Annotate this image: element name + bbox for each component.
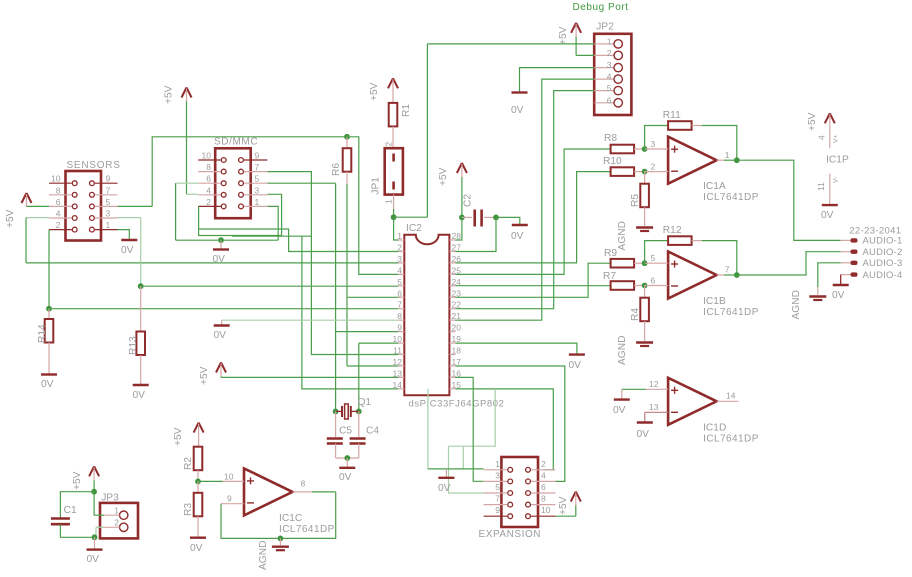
svg-text:2: 2 xyxy=(607,48,612,58)
svg-text:5: 5 xyxy=(607,83,612,93)
svg-text:4: 4 xyxy=(817,135,827,140)
svg-text:0V: 0V xyxy=(569,360,582,371)
svg-text:AGND: AGND xyxy=(791,290,802,319)
svg-text:8: 8 xyxy=(301,479,306,489)
svg-text:5: 5 xyxy=(495,482,500,492)
svg-text:IC1C: IC1C xyxy=(279,513,302,524)
svg-text:3: 3 xyxy=(495,470,500,480)
svg-text:JP2: JP2 xyxy=(596,22,614,33)
svg-text:9: 9 xyxy=(495,505,500,515)
svg-text:9: 9 xyxy=(106,174,111,184)
svg-text:R13: R13 xyxy=(128,336,139,355)
svg-text:7: 7 xyxy=(106,185,111,195)
svg-text:18: 18 xyxy=(452,346,462,356)
svg-text:6: 6 xyxy=(651,276,656,286)
svg-text:V+: V+ xyxy=(833,135,840,143)
svg-text:0V: 0V xyxy=(87,554,100,565)
svg-text:AGND: AGND xyxy=(617,336,628,365)
svg-text:0V: 0V xyxy=(438,483,451,494)
svg-text:1: 1 xyxy=(725,150,730,160)
svg-text:+5V: +5V xyxy=(173,427,184,446)
svg-text:14: 14 xyxy=(726,391,736,401)
svg-text:+5V: +5V xyxy=(72,471,83,490)
svg-text:AUDIO-2: AUDIO-2 xyxy=(863,247,903,258)
svg-text:6: 6 xyxy=(607,95,612,105)
svg-text:+5V: +5V xyxy=(199,366,210,385)
svg-text:2: 2 xyxy=(384,142,394,147)
svg-text:10: 10 xyxy=(51,174,61,184)
svg-text:EXPANSION: EXPANSION xyxy=(479,529,542,540)
svg-text:0V: 0V xyxy=(133,390,146,401)
svg-text:+5V: +5V xyxy=(558,26,569,45)
svg-text:0V: 0V xyxy=(41,379,54,390)
svg-text:C5: C5 xyxy=(339,426,352,437)
svg-text:2: 2 xyxy=(114,518,119,528)
svg-text:1: 1 xyxy=(255,197,260,207)
svg-text:4: 4 xyxy=(541,470,546,480)
svg-text:C1: C1 xyxy=(64,505,77,516)
svg-text:R8: R8 xyxy=(604,133,617,144)
svg-text:1: 1 xyxy=(384,199,394,204)
svg-text:9: 9 xyxy=(227,494,232,504)
svg-text:2: 2 xyxy=(56,220,61,230)
svg-text:2: 2 xyxy=(651,162,656,172)
svg-text:0V: 0V xyxy=(339,472,352,483)
svg-text:8: 8 xyxy=(541,494,546,504)
svg-text:R3: R3 xyxy=(183,503,194,516)
svg-text:5: 5 xyxy=(397,277,402,287)
svg-text:0V: 0V xyxy=(637,429,650,440)
svg-text:0V: 0V xyxy=(214,330,227,341)
svg-text:0V: 0V xyxy=(190,543,203,554)
svg-text:+5V: +5V xyxy=(438,167,449,186)
svg-text:0V: 0V xyxy=(613,405,626,416)
svg-text:ICL7641DP: ICL7641DP xyxy=(279,524,335,535)
svg-text:AUDIO-1: AUDIO-1 xyxy=(863,236,903,247)
svg-text:R14: R14 xyxy=(37,324,48,343)
svg-text:SD/MMC: SD/MMC xyxy=(214,137,258,148)
svg-text:7: 7 xyxy=(495,494,500,504)
svg-text:12: 12 xyxy=(649,379,659,389)
svg-text:2: 2 xyxy=(206,197,211,207)
svg-text:SENSORS: SENSORS xyxy=(67,160,121,171)
svg-text:6: 6 xyxy=(541,482,546,492)
svg-text:13: 13 xyxy=(649,402,659,412)
svg-text:+5V: +5V xyxy=(558,496,569,515)
svg-text:C2: C2 xyxy=(463,194,474,207)
svg-text:+5V: +5V xyxy=(369,82,380,101)
svg-text:10: 10 xyxy=(541,505,551,515)
svg-text:3: 3 xyxy=(106,209,111,219)
svg-text:3: 3 xyxy=(607,60,612,70)
svg-text:R10: R10 xyxy=(603,156,622,167)
svg-text:8: 8 xyxy=(56,185,61,195)
svg-text:ICL7641DP: ICL7641DP xyxy=(703,307,759,318)
svg-text:1: 1 xyxy=(495,459,500,469)
svg-text:R4: R4 xyxy=(630,308,641,321)
svg-text:AUDIO-4: AUDIO-4 xyxy=(863,270,903,281)
svg-text:IC1D: IC1D xyxy=(703,422,726,433)
svg-text:20: 20 xyxy=(452,323,462,333)
svg-text:11: 11 xyxy=(816,182,826,191)
svg-text:ICL7641DP: ICL7641DP xyxy=(703,192,759,203)
svg-text:+5V: +5V xyxy=(807,112,818,131)
svg-text:AUDIO-3: AUDIO-3 xyxy=(863,258,903,269)
svg-text:R6: R6 xyxy=(331,163,342,176)
svg-text:AGND: AGND xyxy=(258,541,269,570)
svg-text:Q1: Q1 xyxy=(358,397,372,408)
svg-text:R9: R9 xyxy=(604,248,617,259)
svg-text:5: 5 xyxy=(255,174,260,184)
svg-text:IC1P: IC1P xyxy=(826,155,849,166)
svg-text:6: 6 xyxy=(56,197,61,207)
svg-text:R12: R12 xyxy=(663,225,682,236)
svg-text:JP1: JP1 xyxy=(371,177,382,195)
svg-text:C4: C4 xyxy=(366,426,379,437)
svg-text:V-: V- xyxy=(833,177,840,183)
svg-text:ICL7641DP: ICL7641DP xyxy=(703,433,759,444)
svg-text:3: 3 xyxy=(255,185,260,195)
svg-text:4: 4 xyxy=(56,209,61,219)
svg-text:Debug Port: Debug Port xyxy=(573,2,629,13)
svg-text:R7: R7 xyxy=(603,271,616,282)
svg-text:+5V: +5V xyxy=(164,85,175,104)
svg-text:5: 5 xyxy=(651,253,656,263)
svg-text:R11: R11 xyxy=(663,110,681,121)
svg-text:4: 4 xyxy=(607,72,612,82)
svg-text:0V: 0V xyxy=(832,290,845,301)
svg-text:1: 1 xyxy=(106,220,111,230)
svg-text:IC1A: IC1A xyxy=(703,181,726,192)
svg-text:1: 1 xyxy=(607,36,612,46)
svg-text:5: 5 xyxy=(106,197,111,207)
svg-text:AGND: AGND xyxy=(617,221,628,250)
svg-text:6: 6 xyxy=(206,174,211,184)
svg-text:8: 8 xyxy=(206,162,211,172)
svg-text:IC1B: IC1B xyxy=(703,296,726,307)
svg-text:2: 2 xyxy=(541,459,546,469)
svg-text:0V: 0V xyxy=(821,210,834,221)
svg-text:+5V: +5V xyxy=(5,209,16,228)
svg-text:3: 3 xyxy=(651,139,656,149)
svg-text:dsPIC33FJ64GP802: dsPIC33FJ64GP802 xyxy=(409,399,505,410)
svg-text:0V: 0V xyxy=(121,245,134,256)
svg-text:0V: 0V xyxy=(511,231,524,242)
svg-text:R1: R1 xyxy=(401,104,412,117)
svg-text:4: 4 xyxy=(206,185,211,195)
svg-text:7: 7 xyxy=(255,162,260,172)
svg-text:1: 1 xyxy=(114,506,119,516)
svg-text:R2: R2 xyxy=(183,457,194,470)
svg-text:10: 10 xyxy=(202,151,212,161)
svg-text:7: 7 xyxy=(725,265,730,275)
svg-text:R5: R5 xyxy=(630,194,641,207)
svg-text:9: 9 xyxy=(255,151,260,161)
svg-text:10: 10 xyxy=(224,472,234,482)
svg-text:IC2: IC2 xyxy=(406,223,422,234)
svg-text:JP3: JP3 xyxy=(101,493,119,504)
svg-text:0V: 0V xyxy=(213,254,226,265)
svg-text:0V: 0V xyxy=(511,105,524,116)
